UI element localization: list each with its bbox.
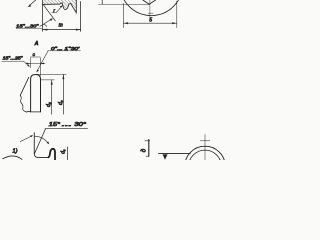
leader r xyxy=(56,6,62,12)
horizontal line xyxy=(159,153,191,155)
thin vertical (core line) xyxy=(66,147,68,160)
hatch boundary outline xyxy=(43,0,77,13)
leader 15..25 xyxy=(24,61,30,66)
svg-text:5: 5 xyxy=(149,17,152,23)
svg-text:...: ... xyxy=(62,122,72,128)
land bottom edge xyxy=(26,111,40,113)
thin horizontal line xyxy=(98,4,149,6)
upper extension line (dc) xyxy=(36,73,66,75)
c extension lines xyxy=(29,58,31,68)
dimension m xyxy=(43,29,81,31)
hatched die section xyxy=(43,0,77,13)
dc dimension line xyxy=(62,75,64,115)
break zigzag xyxy=(20,95,26,112)
svg-text:m: m xyxy=(59,23,63,29)
chamfer edge diagonal xyxy=(43,5,55,21)
leader diagonal to vertex xyxy=(34,129,45,154)
vertical centerline xyxy=(204,135,206,160)
svg-text:1): 1) xyxy=(12,148,17,154)
svg-text:30°: 30° xyxy=(74,122,87,128)
angle arc at vertex xyxy=(43,24,47,26)
centerline vertical xyxy=(149,0,151,17)
cropped leader arrow top-left xyxy=(30,0,36,5)
leader 0..1 30 xyxy=(37,51,48,71)
centerline tick xyxy=(148,12,153,14)
centerline tick xyxy=(200,140,210,142)
tick at its left end xyxy=(101,0,103,4)
face vertical xyxy=(34,133,48,158)
relieved back edge xyxy=(20,77,29,95)
svg-text:15°: 15° xyxy=(49,122,61,128)
inner circle xyxy=(189,150,222,183)
leader arrow from 1) xyxy=(20,136,31,142)
V notch xyxy=(143,0,156,4)
bottom-left hill arc xyxy=(3,156,22,160)
thick vertical with foot xyxy=(148,140,150,157)
dimension 5 : line + arrows xyxy=(123,22,176,24)
svg-text:A: A xyxy=(34,41,39,47)
c dimension arrows (outside) xyxy=(26,62,45,64)
leader arrow to chamfer edge xyxy=(40,19,53,27)
dimension 5 : extension lines xyxy=(122,3,124,27)
lower extension line (dn) xyxy=(41,79,55,81)
outer circle arc xyxy=(120,0,183,16)
outer circle xyxy=(185,146,226,187)
svg-text:15°...25°: 15°...25° xyxy=(3,56,23,61)
angle arc with arrow xyxy=(34,136,48,143)
land arch body xyxy=(31,75,41,112)
wire: right extension vertical xyxy=(80,2,82,32)
svg-text:15°...30°: 15°...30° xyxy=(16,23,39,28)
thread tooth (thick) xyxy=(48,149,55,160)
svg-text:0°... 1°30': 0°... 1°30' xyxy=(51,46,79,51)
dn dimension line xyxy=(51,80,53,114)
down arrow xyxy=(163,154,168,160)
wire: left face vertical xyxy=(42,0,44,31)
